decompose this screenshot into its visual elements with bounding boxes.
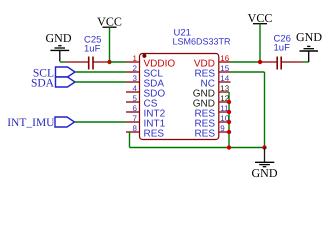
pin 1 VDDIO xyxy=(126,54,175,69)
pin 6 INT2 xyxy=(126,104,166,119)
svg-text:5: 5 xyxy=(133,94,138,103)
svg-text:2: 2 xyxy=(133,64,138,73)
svg-text:7: 7 xyxy=(133,114,138,123)
svg-text:VCC: VCC xyxy=(248,11,273,25)
IC U21 LSM6DS33TR body xyxy=(140,54,219,140)
svg-text:4: 4 xyxy=(133,84,138,93)
capacitor C26 xyxy=(274,34,291,70)
svg-text:GND: GND xyxy=(46,31,72,45)
port SCL xyxy=(33,67,75,79)
svg-text:6: 6 xyxy=(133,104,138,113)
port SDA xyxy=(31,77,75,90)
wire pin8 down xyxy=(129,132,131,148)
svg-text:VCC: VCC xyxy=(97,14,122,28)
pin 15 RES xyxy=(194,64,230,79)
svg-text:GND: GND xyxy=(296,30,322,44)
pin 4 SDO xyxy=(126,84,165,99)
power symbol VCC (left) xyxy=(97,14,122,28)
svg-text:1uF: 1uF xyxy=(84,44,101,55)
junction pin12 xyxy=(227,100,231,104)
junction pin11 xyxy=(227,110,231,114)
wire INT_IMU to pin7 xyxy=(75,121,127,123)
svg-text:GND: GND xyxy=(252,166,278,180)
pin 3 SDA xyxy=(126,74,164,89)
junction GND3 xyxy=(262,145,266,149)
svg-text:RES: RES xyxy=(144,128,165,139)
svg-text:RES: RES xyxy=(194,128,215,139)
pin 7 INT1 xyxy=(126,114,166,129)
wire bottom bus xyxy=(130,147,265,149)
svg-text:SDA: SDA xyxy=(31,78,55,90)
wire SDA to pin3 xyxy=(75,81,126,83)
wire right GND bus vertical xyxy=(228,92,230,148)
svg-text:13: 13 xyxy=(220,84,229,93)
svg-text:3: 3 xyxy=(133,74,138,83)
junction J1 xyxy=(107,60,111,64)
svg-text:9: 9 xyxy=(220,124,225,133)
pin 8 RES xyxy=(126,124,164,139)
wire C26 left lead xyxy=(260,61,277,63)
svg-text:1: 1 xyxy=(133,54,138,63)
pin 14 NC xyxy=(201,74,231,89)
svg-text:INT_IMU: INT_IMU xyxy=(7,117,55,129)
svg-text:15: 15 xyxy=(220,64,229,73)
svg-text:1uF: 1uF xyxy=(274,43,291,54)
pin 9 RES xyxy=(194,124,229,139)
svg-text:LSM6DS33TR: LSM6DS33TR xyxy=(173,37,232,47)
junction J2 xyxy=(258,60,262,64)
pin 10 RES xyxy=(194,114,229,129)
wire C25 right lead xyxy=(93,61,109,63)
svg-text:14: 14 xyxy=(220,74,229,83)
junction pin10 xyxy=(227,120,231,124)
ground GND3 (bottom right) xyxy=(252,148,278,181)
pin 13 GND xyxy=(193,84,230,99)
capacitor C25 xyxy=(84,35,101,70)
pin 2 SCL xyxy=(126,64,163,79)
ground GND1 (top left, inverted earth) xyxy=(46,31,72,62)
wire C26 right lead xyxy=(282,61,303,63)
pin 5 CS xyxy=(126,94,158,109)
svg-text:8: 8 xyxy=(133,124,138,133)
wire to GND2 xyxy=(303,61,309,63)
wire pin16 to VCC junction xyxy=(231,61,261,63)
wire C25 left lead xyxy=(66,61,89,63)
junction bus-bottom xyxy=(227,145,231,149)
pin 12 GND xyxy=(193,94,230,109)
wire pin15 down to bottom bus xyxy=(264,72,266,148)
svg-text:16: 16 xyxy=(220,54,229,63)
port INT_IMU xyxy=(7,117,74,129)
wire J1 to pin1 xyxy=(110,61,127,63)
U21 pin-1 marker xyxy=(142,54,146,58)
wire pin15 right xyxy=(231,71,265,73)
wire VCC1 drop xyxy=(109,27,111,62)
pin 11 RES xyxy=(194,104,229,119)
power symbol VCC (right) xyxy=(248,11,273,25)
ground GND2 (right of C26, inverted earth) xyxy=(296,30,322,62)
wire SCL to pin2 xyxy=(75,71,126,73)
junction pin9 xyxy=(227,130,231,134)
wire GND1 corner green xyxy=(60,61,66,63)
wire VCC2 drop xyxy=(259,24,261,62)
pin 16 VDD xyxy=(194,54,231,69)
